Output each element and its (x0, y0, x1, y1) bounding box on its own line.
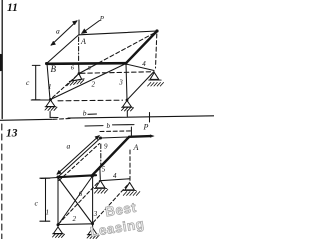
svg-text:A: A (133, 143, 139, 152)
svg-text:b: b (83, 109, 87, 118)
svg-text:5: 5 (88, 65, 92, 72)
svg-text:c: c (35, 199, 39, 208)
svg-text:a: a (56, 27, 60, 36)
svg-text:c: c (26, 78, 30, 87)
svg-text:1: 1 (46, 209, 50, 217)
svg-text:P: P (143, 123, 149, 132)
svg-text:Best: Best (104, 200, 137, 220)
svg-text:Leasing: Leasing (89, 216, 145, 239)
svg-text:3: 3 (118, 79, 123, 87)
svg-text:1: 1 (48, 83, 52, 91)
svg-text:11: 11 (7, 2, 18, 14)
svg-text:2: 2 (92, 81, 96, 89)
svg-text:A: A (80, 37, 86, 46)
svg-text:B: B (51, 64, 57, 74)
svg-text:4: 4 (142, 60, 146, 68)
svg-text:9: 9 (104, 142, 108, 150)
svg-text:4: 4 (113, 172, 117, 180)
svg-text:5: 5 (102, 166, 106, 174)
svg-text:3: 3 (93, 210, 98, 218)
svg-text:a: a (67, 142, 71, 151)
svg-text:6: 6 (79, 190, 83, 198)
svg-text:6: 6 (71, 65, 75, 72)
svg-text:P: P (99, 15, 105, 23)
svg-text:2: 2 (73, 215, 77, 223)
svg-text:13: 13 (6, 127, 18, 139)
svg-text:b: b (107, 122, 111, 130)
